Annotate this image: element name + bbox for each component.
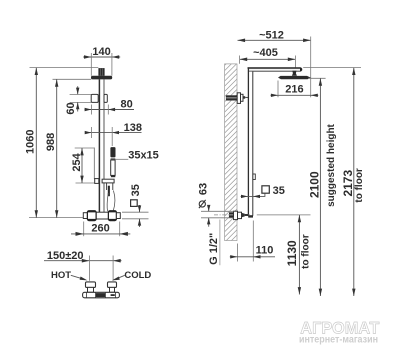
- wall union bolt: [226, 95, 237, 100]
- svg-text:216: 216: [285, 83, 303, 95]
- holder side tab: [253, 174, 255, 180]
- dim 140 dimension line: [83, 46, 120, 76]
- leader HOT: [71, 275, 88, 280]
- svg-text:260: 260: [91, 223, 109, 235]
- holder bracket: [102, 179, 114, 183]
- dim 110: [230, 221, 275, 262]
- svg-text:1130: 1130: [285, 240, 299, 266]
- wall union pin: [243, 96, 245, 99]
- extension line baseline bottom: [29, 217, 83, 219]
- dim 1130 vertical: [285, 215, 312, 295]
- leader line G 1/2": [219, 220, 221, 266]
- shower head side: [278, 76, 311, 79]
- svg-text:to floor: to floor: [301, 234, 312, 269]
- dim 2100 vertical: [307, 78, 337, 296]
- dim 2173 vertical: [341, 68, 365, 296]
- dim 1060 vertical: [25, 68, 38, 218]
- dim ~405: [240, 47, 296, 67]
- wall hatch: [220, 50, 240, 262]
- slider bracket right tab: [104, 94, 107, 102]
- dim ⌀63: [197, 183, 233, 227]
- dim ~512: [238, 30, 311, 98]
- dim 216: [271, 81, 319, 98]
- hose pin: [108, 186, 110, 197]
- outlet flange: [234, 211, 238, 219]
- svg-text:35: 35: [130, 184, 142, 196]
- outlet cone: [242, 213, 245, 218]
- dim 80: [85, 98, 135, 114]
- inlet right neck: [110, 287, 115, 292]
- svg-text:988: 988: [45, 133, 57, 151]
- svg-text:~512: ~512: [259, 30, 284, 42]
- outlet inner piece: [229, 212, 233, 217]
- hand shower grip: [111, 160, 115, 175]
- dim 988 vertical: [45, 79, 58, 217]
- hand shower bottom cap: [111, 175, 115, 177]
- svg-text:HOT: HOT: [51, 270, 71, 281]
- shower head plate front: [91, 76, 112, 80]
- riser bottom cap: [248, 215, 253, 217]
- svg-text:140: 140: [92, 46, 110, 58]
- svg-text:2100: 2100: [307, 171, 321, 198]
- dim 60 vertical: [65, 86, 91, 114]
- hose droplet: [107, 191, 115, 212]
- inlet left nut: [86, 282, 96, 288]
- svg-text:80: 80: [120, 98, 132, 110]
- svg-text:35x15: 35x15: [128, 150, 159, 162]
- holder prong right: [112, 183, 114, 190]
- svg-text:~405: ~405: [253, 47, 278, 59]
- dim 35 front vertical: [138, 205, 141, 227]
- svg-text:интернет-магазин: интернет-магазин: [299, 334, 378, 346]
- dim 2173 ext line (arm top): [303, 67, 361, 69]
- extension line 1060 top: [30, 67, 99, 69]
- dim 260: [71, 222, 130, 237]
- dim 2100 ext line (head bottom): [308, 77, 326, 79]
- shower head connector block: [98, 68, 104, 76]
- svg-text:35: 35: [273, 185, 285, 197]
- svg-text:suggested height: suggested height: [326, 123, 337, 206]
- holder rail line: [93, 148, 95, 180]
- valve left knob: [87, 211, 96, 221]
- wall union rings: [241, 94, 244, 101]
- svg-text:to floor: to floor: [354, 168, 365, 203]
- label square 35 side: [241, 185, 285, 198]
- dim 254 vertical: [71, 148, 94, 183]
- outlet centerline dashed: [214, 214, 250, 216]
- inlet right nut: [108, 282, 117, 288]
- dim 150±20: [44, 250, 122, 281]
- svg-text:2173: 2173: [341, 170, 355, 197]
- shower arm side: [248, 67, 304, 71]
- svg-text:COLD: COLD: [124, 270, 151, 281]
- union to riser line: [245, 96, 248, 98]
- leader 35x15: [116, 158, 129, 160]
- hand shower neck band: [111, 158, 116, 159]
- svg-text:63: 63: [197, 183, 209, 195]
- wall union flange: [237, 93, 240, 104]
- valve right cap: [116, 213, 120, 219]
- svg-text:110: 110: [256, 245, 274, 257]
- ball joint: [292, 71, 297, 76]
- inlet bar: [83, 292, 120, 298]
- pipe front: [99, 79, 104, 212]
- inlet left neck: [88, 287, 94, 292]
- svg-text:150±20: 150±20: [47, 250, 84, 262]
- holder prong left: [106, 183, 108, 190]
- dim 138: [85, 122, 142, 146]
- holder left clip: [95, 179, 99, 184]
- svg-text:G 1/2": G 1/2": [208, 233, 220, 265]
- slider bracket left tab: [91, 94, 98, 102]
- riser column side: [248, 67, 252, 215]
- outlet stem: [245, 214, 249, 216]
- leader COLD: [112, 275, 125, 280]
- valve left cap: [83, 213, 87, 219]
- valve right knob: [108, 211, 116, 221]
- svg-text:60: 60: [65, 102, 77, 114]
- extension line 988 top: [53, 78, 92, 80]
- svg-text:1060: 1060: [25, 130, 37, 154]
- label square 35 front: [130, 184, 142, 206]
- svg-text:254: 254: [71, 152, 83, 171]
- hand shower head: [110, 147, 115, 157]
- dim 35 front ext lines: [122, 211, 149, 213]
- svg-text:138: 138: [124, 122, 142, 134]
- outlet nut: [238, 212, 242, 218]
- dim 1130 ext line (outlet): [257, 214, 311, 216]
- valve body: [96, 212, 108, 219]
